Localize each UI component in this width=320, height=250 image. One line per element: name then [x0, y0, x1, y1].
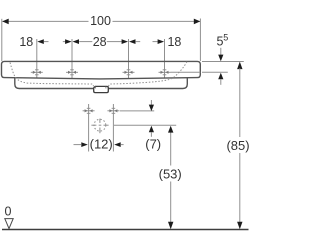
drain outlet vertical centerline	[99, 119, 101, 134]
tap hole cross 4	[159, 70, 171, 75]
dimension 100 left extension line	[1, 19, 3, 61]
dimension (85) line upper part	[239, 68, 241, 137]
drain outlet horizontal centerline dashes	[91, 124, 108, 126]
svg-text:(7): (7)	[145, 137, 161, 152]
dimension 18 right arrows	[129, 39, 164, 44]
washbasin rim outline	[2, 61, 201, 79]
dimension (7) lower arrow	[149, 126, 154, 133]
svg-text:0: 0	[5, 205, 12, 219]
svg-text:5: 5	[223, 33, 228, 43]
dimension (85) up arrow	[237, 62, 242, 70]
drain outlet level line	[114, 124, 176, 126]
fixing hole cross A	[88, 104, 90, 152]
dimension 5.5 bottom extension line	[202, 71, 228, 73]
dimension 100 left arrow	[2, 19, 9, 25]
tap hole extension line 3	[128, 39, 130, 79]
dimension 100 right extension line	[199, 19, 201, 62]
dimension 5.5 top extension line	[202, 61, 244, 63]
dimension 5.5 up arrow	[218, 73, 223, 80]
fixing hole cross B	[112, 104, 114, 152]
dimension (7) upper arrow	[150, 100, 152, 106]
tap hole extension line 1	[36, 39, 38, 79]
tap hole extension line 2	[71, 39, 73, 79]
dimension (53) line lower part	[170, 182, 172, 223]
floor line	[2, 229, 249, 231]
dimension (53) line upper part	[170, 132, 172, 166]
tap hole cross 1	[31, 70, 43, 75]
svg-text:18: 18	[167, 35, 181, 49]
svg-text:28: 28	[93, 35, 107, 49]
dimension (85) line lower part	[239, 153, 241, 223]
dimension 100 line	[3, 20, 201, 22]
tap hole extension line 4	[164, 39, 166, 79]
drain fitting box	[94, 86, 109, 92]
dimension (53) down arrow	[168, 222, 173, 230]
dimension (85) down arrow	[237, 222, 242, 230]
dimension 28 arrows and line	[73, 39, 129, 44]
dimension 18 left arrows	[37, 39, 71, 44]
datum triangle	[5, 219, 13, 229]
tap hole cross 2	[66, 70, 78, 75]
dimension 100 right arrow	[194, 19, 201, 25]
svg-text:(53): (53)	[159, 166, 182, 181]
svg-text:(85): (85)	[226, 138, 249, 153]
drain outlet dashed circle	[94, 119, 106, 131]
dimension (53) up arrow	[168, 126, 173, 133]
svg-text:(12): (12)	[90, 137, 113, 152]
tap hole cross 3	[123, 70, 135, 75]
cross B leader line	[120, 110, 154, 112]
svg-text:100: 100	[90, 14, 111, 28]
washbasin bowl body	[15, 78, 188, 89]
svg-text:18: 18	[19, 35, 33, 49]
bowl hidden interior dashed line	[10, 63, 94, 87]
dimension (12) right arrow	[114, 142, 121, 147]
shelf line to right edge	[171, 71, 201, 73]
dimension 5.5 down arrow	[220, 48, 222, 56]
drain fitting ticks	[95, 87, 97, 89]
dimension (12) left arrow	[74, 144, 82, 146]
